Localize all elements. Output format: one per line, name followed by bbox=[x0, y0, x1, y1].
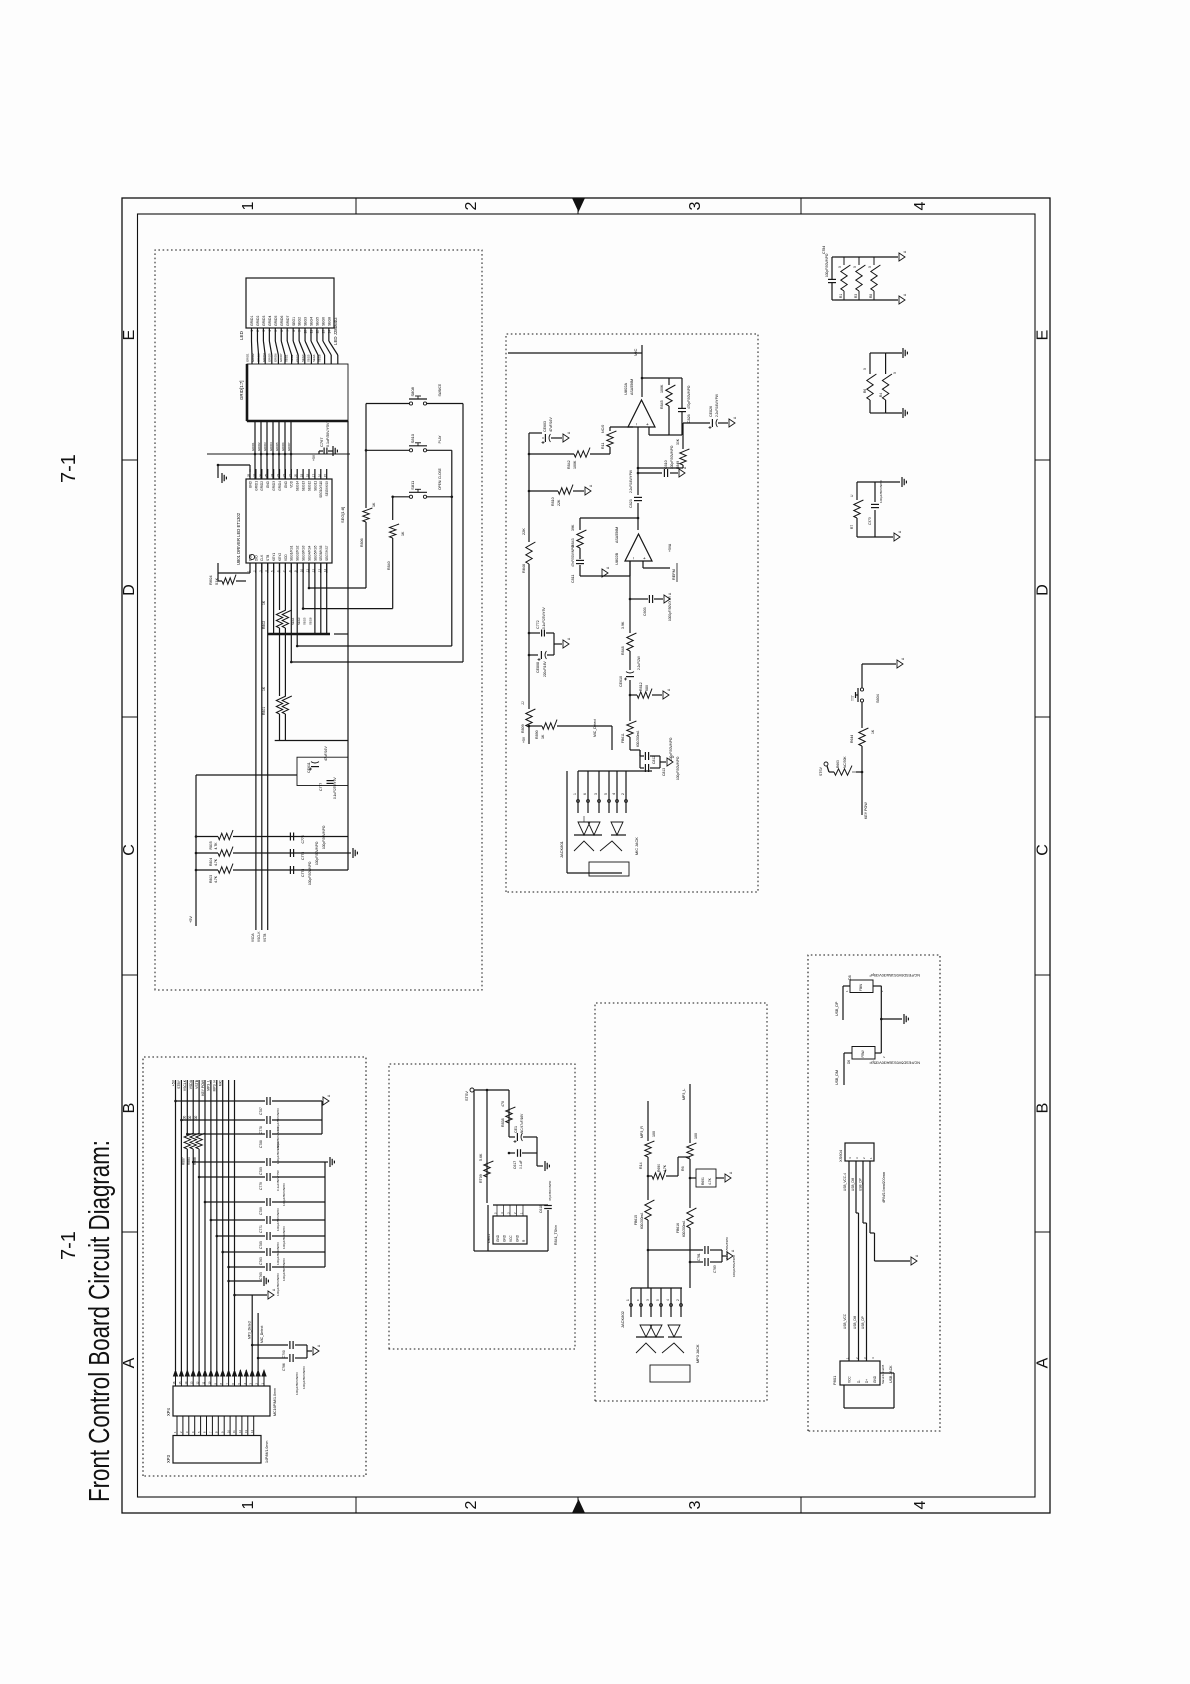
svg-text:0: 0 bbox=[868, 266, 872, 268]
svg-text:JACK802: JACK802 bbox=[620, 1310, 625, 1328]
svg-text:MP3_L: MP3_L bbox=[207, 1080, 211, 1091]
svg-text:MIC JACK: MIC JACK bbox=[635, 837, 639, 855]
svg-text:SEG6: SEG6 bbox=[312, 354, 316, 362]
svg-text:470pF/50V/NPO: 470pF/50V/NPO bbox=[687, 385, 691, 409]
svg-text:100pF/50V/NPO: 100pF/50V/NPO bbox=[670, 445, 674, 469]
svg-text:CE611: CE611 bbox=[307, 762, 311, 773]
svg-text:0.1uF/50V/Y5V: 0.1uF/50V/Y5V bbox=[276, 1169, 280, 1191]
svg-text:USB_VCC: USB_VCC bbox=[843, 1313, 847, 1329]
svg-text:A: A bbox=[121, 1357, 138, 1368]
svg-text:1K: 1K bbox=[262, 686, 266, 691]
svg-text:GND: GND bbox=[266, 480, 270, 488]
svg-text:1K: 1K bbox=[871, 729, 875, 734]
svg-text:SEG13: SEG13 bbox=[302, 481, 306, 492]
svg-text:R841_TShin: R841_TShin bbox=[554, 1225, 558, 1245]
svg-text:VSTB: VSTB bbox=[195, 1079, 199, 1089]
svg-text:USB_DP: USB_DP bbox=[859, 1178, 863, 1191]
svg-text:GND: GND bbox=[284, 480, 288, 488]
svg-text:Stand A Shell B: Stand A Shell B bbox=[881, 1365, 885, 1384]
svg-text:XP4: XP4 bbox=[166, 1407, 171, 1416]
svg-text:0: 0 bbox=[863, 368, 867, 370]
svg-text:17: 17 bbox=[311, 473, 315, 477]
svg-text:100pF/50V/NPO: 100pF/50V/NPO bbox=[276, 1141, 280, 1164]
svg-text:100pF/50V/NPO: 100pF/50V/NPO bbox=[282, 1258, 286, 1281]
svg-text:SEG4: SEG4 bbox=[310, 317, 314, 326]
svg-text:SEG4/KS4: SEG4/KS4 bbox=[307, 545, 311, 561]
svg-text:GRID4: GRID4 bbox=[262, 353, 266, 362]
svg-text:PLAY: PLAY bbox=[438, 435, 442, 444]
svg-text:GND: GND bbox=[873, 1375, 877, 1383]
svg-text:C813: C813 bbox=[662, 768, 666, 776]
svg-text:11: 11 bbox=[310, 330, 314, 334]
svg-text:22K: 22K bbox=[522, 528, 526, 535]
svg-text:GRID4: GRID4 bbox=[269, 442, 273, 451]
svg-text:C789: C789 bbox=[259, 1207, 263, 1215]
svg-text:GND: GND bbox=[503, 1234, 507, 1242]
svg-text:1000pF/50V/XTR: 1000pF/50V/XTR bbox=[668, 596, 672, 621]
svg-text:S811: S811 bbox=[410, 480, 415, 490]
svg-text:39K: 39K bbox=[571, 524, 575, 531]
svg-text:47nF/50V/NPO: 47nF/50V/NPO bbox=[571, 545, 575, 567]
svg-text:R691: R691 bbox=[701, 1177, 705, 1185]
svg-text:16: 16 bbox=[317, 473, 321, 477]
svg-text:R803: R803 bbox=[209, 875, 213, 883]
svg-text:C763: C763 bbox=[259, 1257, 263, 1265]
svg-text:+: + bbox=[645, 423, 650, 426]
svg-text:XP3: XP3 bbox=[166, 1454, 171, 1463]
svg-text:R809: R809 bbox=[521, 724, 525, 733]
svg-text:GRID1: GRID1 bbox=[250, 316, 254, 326]
svg-text:S604: S604 bbox=[876, 694, 880, 703]
svg-text:C790: C790 bbox=[282, 1350, 286, 1358]
svg-text:OSC: OSC bbox=[248, 553, 252, 561]
svg-text:MIC_Detect: MIC_Detect bbox=[593, 719, 597, 737]
svg-text:1: 1 bbox=[573, 793, 577, 795]
svg-text:GRID6: GRID6 bbox=[281, 442, 285, 451]
svg-text:CE1: CE1 bbox=[514, 1126, 518, 1133]
svg-text:USB JACK: USB JACK bbox=[889, 1365, 893, 1383]
svg-text:KEY POW: KEY POW bbox=[864, 802, 868, 819]
svg-text:R848: R848 bbox=[621, 646, 625, 655]
svg-text:4.7K: 4.7K bbox=[214, 875, 218, 883]
svg-text:SEG5/KS5: SEG5/KS5 bbox=[313, 545, 317, 561]
svg-text:R840: R840 bbox=[387, 561, 391, 570]
svg-text:CE826: CE826 bbox=[709, 406, 713, 417]
svg-text:R1: R1 bbox=[839, 294, 843, 298]
svg-text:C787: C787 bbox=[259, 1107, 263, 1115]
svg-text:26: 26 bbox=[258, 473, 262, 477]
svg-text:VSTB: VSTB bbox=[263, 934, 267, 942]
svg-text:SEG6: SEG6 bbox=[322, 317, 326, 326]
svg-text:SEG8: SEG8 bbox=[327, 317, 331, 326]
svg-text:OPEN/ CLOSE: OPEN/ CLOSE bbox=[438, 468, 442, 490]
svg-text:C610: C610 bbox=[664, 460, 668, 469]
svg-text:CE603: CE603 bbox=[543, 421, 547, 432]
svg-text:6: 6 bbox=[280, 330, 284, 332]
svg-text:100pF/50V/NPO: 100pF/50V/NPO bbox=[276, 1273, 280, 1296]
svg-text:7-1: 7-1 bbox=[58, 454, 80, 483]
svg-text:+5V: +5V bbox=[189, 916, 193, 923]
svg-text:100pF/50V/NPO: 100pF/50V/NPO bbox=[282, 1226, 286, 1249]
svg-text:+5V: +5V bbox=[171, 1079, 175, 1086]
svg-text:100K: 100K bbox=[660, 384, 664, 393]
svg-text:C767: C767 bbox=[319, 437, 324, 447]
svg-text:GRID1: GRID1 bbox=[254, 481, 258, 491]
svg-text:14: 14 bbox=[327, 330, 331, 334]
svg-text:STSV: STSV bbox=[819, 766, 823, 776]
svg-text:22K: 22K bbox=[557, 499, 561, 506]
svg-text:DIO: DIO bbox=[254, 555, 258, 561]
svg-text:CLK: CLK bbox=[260, 554, 264, 561]
svg-text:GRID6: GRID6 bbox=[280, 316, 284, 326]
svg-text:CE610: CE610 bbox=[619, 676, 623, 687]
svg-text:680: 680 bbox=[645, 685, 649, 691]
svg-text:FB616: FB616 bbox=[676, 1223, 680, 1233]
svg-text:47uF/16V: 47uF/16V bbox=[324, 746, 328, 761]
svg-text:220uF/16V: 220uF/16V bbox=[543, 661, 547, 677]
svg-text:C826: C826 bbox=[687, 414, 691, 423]
svg-text:USB_DM: USB_DM bbox=[853, 1315, 857, 1329]
svg-text:6: 6 bbox=[583, 793, 587, 795]
svg-text:3: 3 bbox=[646, 1299, 650, 1301]
svg-text:R4: R4 bbox=[879, 393, 883, 397]
svg-text:GRID7: GRID7 bbox=[287, 442, 291, 451]
svg-text:8: 8 bbox=[292, 330, 296, 332]
svg-text:0: 0 bbox=[893, 372, 897, 374]
svg-text:LED: LED bbox=[239, 330, 244, 340]
svg-text:R6: R6 bbox=[863, 389, 867, 393]
svg-text:C812: C812 bbox=[652, 756, 656, 764]
svg-text:R805: R805 bbox=[209, 841, 213, 849]
svg-text:R663: R663 bbox=[836, 760, 840, 768]
svg-text:R843: R843 bbox=[571, 538, 575, 547]
svg-text:R3: R3 bbox=[854, 294, 858, 298]
svg-text:C603: C603 bbox=[643, 607, 647, 616]
svg-text:A: A bbox=[1035, 1357, 1052, 1368]
svg-text:100pF/50V/NPO: 100pF/50V/NPO bbox=[676, 756, 680, 780]
svg-text:5.6K: 5.6K bbox=[479, 1153, 483, 1161]
svg-text:SEG1/KS1: SEG1/KS1 bbox=[290, 545, 294, 561]
svg-text:C783: C783 bbox=[713, 1265, 717, 1273]
svg-text:3: 3 bbox=[594, 793, 598, 795]
svg-text:STSV: STSV bbox=[465, 1091, 469, 1101]
svg-text:NC/FESD5V0S1BA/30V/35pF: NC/FESD5V0S1BA/30V/35pF bbox=[869, 973, 920, 977]
svg-text:−: − bbox=[634, 423, 639, 426]
svg-text:E: E bbox=[121, 330, 138, 341]
svg-text:GRID[1:7]: GRID[1:7] bbox=[239, 380, 244, 400]
svg-text:ASA556M: ASA556M bbox=[615, 527, 619, 543]
svg-text:1: 1 bbox=[250, 330, 254, 332]
svg-text:R806: R806 bbox=[360, 538, 364, 547]
svg-text:E: E bbox=[1035, 330, 1052, 341]
svg-text:100: 100 bbox=[694, 1133, 698, 1139]
svg-text:1: 1 bbox=[240, 201, 257, 210]
svg-text:600/200mA: 600/200mA bbox=[636, 730, 640, 747]
svg-text:+5VA: +5VA bbox=[668, 543, 672, 552]
svg-text:2.2uF/16V/YPW: 2.2uF/16V/YPW bbox=[715, 394, 719, 417]
svg-text:JJ: JJ bbox=[521, 701, 525, 705]
svg-text:19: 19 bbox=[300, 473, 304, 477]
svg-text:100: 100 bbox=[652, 1131, 656, 1137]
svg-text:S810: S810 bbox=[410, 433, 415, 443]
svg-text:GRID4: GRID4 bbox=[278, 481, 282, 491]
svg-text:18: 18 bbox=[306, 473, 310, 477]
svg-text:1K: 1K bbox=[262, 600, 266, 605]
svg-text:30K: 30K bbox=[676, 438, 680, 445]
svg-text:R890: R890 bbox=[535, 730, 539, 739]
svg-text:1: 1 bbox=[626, 1299, 630, 1301]
svg-text:600/200mA: 600/200mA bbox=[640, 1212, 644, 1229]
svg-text:13: 13 bbox=[322, 330, 326, 334]
svg-text:C617: C617 bbox=[513, 1161, 517, 1169]
svg-text:SEG1: SEG1 bbox=[291, 617, 295, 625]
svg-text:R690: R690 bbox=[657, 1164, 661, 1172]
svg-text:20: 20 bbox=[294, 473, 298, 477]
svg-text:GRID5: GRID5 bbox=[275, 442, 279, 451]
svg-text:4.7K: 4.7K bbox=[214, 858, 218, 866]
svg-text:100pF/50V/NPO: 100pF/50V/NPO bbox=[825, 253, 829, 277]
svg-text:CE808: CE808 bbox=[536, 662, 540, 673]
svg-text:2.2uF/16V/YPW: 2.2uF/16V/YPW bbox=[629, 470, 633, 493]
svg-text:GRID7: GRID7 bbox=[279, 353, 283, 362]
svg-text:GRID2: GRID2 bbox=[251, 353, 255, 362]
svg-text:1K: 1K bbox=[541, 734, 545, 739]
svg-text:GND: GND bbox=[248, 480, 252, 488]
svg-text:R846: R846 bbox=[522, 564, 526, 573]
svg-text:2: 2 bbox=[676, 1299, 680, 1301]
svg-text:REFM: REFM bbox=[672, 569, 676, 580]
svg-text:C781: C781 bbox=[697, 1253, 701, 1261]
svg-text:USB_DM: USB_DM bbox=[835, 1070, 839, 1085]
svg-text:C779: C779 bbox=[259, 1182, 263, 1190]
svg-text:C778: C778 bbox=[259, 1126, 263, 1134]
svg-text:FBW: FBW bbox=[861, 1050, 865, 1057]
svg-text:D8: D8 bbox=[848, 975, 852, 980]
svg-text:R884: R884 bbox=[187, 1157, 191, 1165]
svg-text:4: 4 bbox=[612, 793, 616, 795]
svg-text:TTT: TTT bbox=[851, 695, 855, 701]
svg-text:XS604: XS604 bbox=[838, 1149, 843, 1162]
svg-text:ASA556M: ASA556M bbox=[630, 379, 634, 395]
svg-text:5: 5 bbox=[656, 1299, 660, 1301]
svg-text:SEG6/KS6: SEG6/KS6 bbox=[319, 545, 323, 561]
svg-text:2: 2 bbox=[621, 793, 625, 795]
svg-text:C784: C784 bbox=[822, 246, 826, 254]
svg-text:R644: R644 bbox=[850, 735, 854, 743]
svg-text:SEG5: SEG5 bbox=[307, 354, 311, 362]
svg-text:SEG11: SEG11 bbox=[313, 481, 317, 491]
svg-text:R801: R801 bbox=[262, 707, 266, 715]
svg-text:GRID2: GRID2 bbox=[257, 442, 261, 451]
svg-text:R845: R845 bbox=[660, 400, 664, 409]
svg-text:R7: R7 bbox=[850, 525, 854, 529]
svg-text:7-1: 7-1 bbox=[58, 1231, 80, 1260]
svg-text:B: B bbox=[1035, 1103, 1052, 1114]
svg-text:P801: P801 bbox=[832, 1375, 837, 1385]
svg-text:14P/M/1.0mm: 14P/M/1.0mm bbox=[265, 1441, 269, 1463]
svg-text:600/200mA: 600/200mA bbox=[682, 1220, 686, 1237]
svg-text:0.1uF/25V/Y5V: 0.1uF/25V/Y5V bbox=[333, 777, 337, 799]
svg-text:R604: R604 bbox=[208, 575, 213, 585]
svg-text:VSCLK: VSCLK bbox=[257, 931, 261, 942]
svg-text:USB_VCC-4: USB_VCC-4 bbox=[843, 1173, 847, 1191]
svg-text:R812: R812 bbox=[639, 682, 643, 691]
svg-text:LED J28064G: LED J28064G bbox=[333, 317, 338, 345]
svg-text:R6: R6 bbox=[681, 1166, 685, 1171]
svg-text:SEG2: SEG2 bbox=[298, 317, 302, 326]
svg-text:SEG3: SEG3 bbox=[304, 317, 308, 326]
svg-text:C772: C772 bbox=[536, 620, 540, 629]
svg-text:1K: 1K bbox=[372, 502, 376, 507]
svg-text:STB: STB bbox=[266, 555, 270, 561]
svg-text:GRID2: GRID2 bbox=[256, 316, 260, 326]
svg-text:Front Control Board Circuit Di: Front Control Board Circuit Diagram: bbox=[84, 1140, 116, 1502]
svg-text:FB611: FB611 bbox=[621, 733, 625, 743]
svg-text:C771: C771 bbox=[259, 1225, 263, 1233]
svg-text:MIC_Detect: MIC_Detect bbox=[260, 1326, 264, 1343]
svg-text:GRID5: GRID5 bbox=[274, 316, 278, 326]
svg-text:4: 4 bbox=[666, 1299, 670, 1301]
svg-text:C785: C785 bbox=[259, 1241, 263, 1249]
svg-text:S808: S808 bbox=[410, 386, 415, 396]
svg-text:2: 2 bbox=[463, 1500, 480, 1509]
svg-text:R887: R887 bbox=[181, 1157, 185, 1165]
svg-text:C373: C373 bbox=[868, 517, 872, 525]
svg-text:GRID1: GRID1 bbox=[251, 442, 255, 451]
svg-text:R14: R14 bbox=[639, 1162, 643, 1169]
svg-text:GND: GND bbox=[496, 1234, 500, 1242]
svg-text:GRID6: GRID6 bbox=[273, 353, 277, 362]
svg-text:SEG3: SEG3 bbox=[295, 354, 299, 362]
svg-text:NC/0: NC/0 bbox=[601, 425, 605, 433]
svg-text:SEG2: SEG2 bbox=[290, 354, 294, 362]
svg-text:MC16P/M/1.0mm: MC16P/M/1.0mm bbox=[273, 1388, 277, 1416]
svg-text:9: 9 bbox=[298, 330, 302, 332]
svg-text:GRID4: GRID4 bbox=[268, 316, 272, 326]
svg-text:SEG3: SEG3 bbox=[297, 617, 301, 625]
svg-text:100pF/50V/NPO: 100pF/50V/NPO bbox=[276, 1242, 280, 1265]
svg-text:100pF/50V/NPO: 100pF/50V/NPO bbox=[308, 861, 312, 885]
svg-text:100pF/50V/NPO: 100pF/50V/NPO bbox=[315, 841, 319, 865]
svg-text:C: C bbox=[1035, 844, 1052, 856]
svg-text:3: 3 bbox=[687, 201, 704, 210]
svg-text:KEY POW: KEY POW bbox=[201, 1079, 205, 1096]
svg-text:SEG8: SEG8 bbox=[318, 354, 322, 362]
svg-text:R849: R849 bbox=[676, 461, 680, 469]
svg-text:+: + bbox=[642, 557, 647, 560]
svg-text:GRID2: GRID2 bbox=[260, 481, 264, 491]
svg-text:GRID3: GRID3 bbox=[257, 353, 261, 362]
svg-text:GRID7: GRID7 bbox=[286, 316, 290, 326]
svg-text:47pF/50V/NPO: 47pF/50V/NPO bbox=[548, 1180, 552, 1201]
svg-text:VSCLK: VSCLK bbox=[183, 1079, 187, 1091]
svg-text:0.1uF/50V/Y5V: 0.1uF/50V/Y5V bbox=[326, 422, 330, 447]
svg-text:USB_DP: USB_DP bbox=[861, 1316, 865, 1329]
svg-text:15: 15 bbox=[323, 473, 327, 477]
svg-text:SEG10/S10: SEG10/S10 bbox=[319, 481, 323, 498]
svg-text:MP3 JACK: MP3 JACK bbox=[696, 1344, 700, 1363]
svg-text:USB_DP: USB_DP bbox=[835, 1001, 839, 1016]
svg-text:4.7K: 4.7K bbox=[214, 842, 218, 850]
svg-text:100K: 100K bbox=[573, 460, 577, 469]
svg-text:4: 4 bbox=[912, 201, 929, 210]
svg-text:U802B: U802B bbox=[614, 552, 619, 565]
svg-text:100pF/50V/NPO: 100pF/50V/NPO bbox=[732, 1254, 736, 1277]
svg-text:4.7K: 4.7K bbox=[663, 1164, 667, 1172]
svg-text:VDD: VDD bbox=[290, 480, 294, 487]
svg-text:C811: C811 bbox=[571, 575, 575, 583]
svg-text:100pF/50V/NPO: 100pF/50V/NPO bbox=[302, 1366, 306, 1389]
svg-text:SEG3/KS3: SEG3/KS3 bbox=[302, 545, 306, 561]
svg-text:D: D bbox=[1035, 584, 1052, 596]
svg-text:R838: R838 bbox=[501, 1118, 505, 1127]
svg-text:R804: R804 bbox=[209, 858, 213, 866]
svg-text:100pF/50V/NPO: 100pF/50V/NPO bbox=[879, 480, 883, 503]
svg-text:R802: R802 bbox=[262, 621, 266, 629]
svg-text:B: B bbox=[121, 1103, 138, 1114]
svg-text:3: 3 bbox=[262, 330, 266, 332]
svg-text:D6: D6 bbox=[847, 1060, 851, 1064]
svg-text:FBW: FBW bbox=[859, 984, 863, 991]
svg-text:MP3_H: MP3_H bbox=[213, 1079, 217, 1091]
svg-text:0.1uF/25V/Y5V: 0.1uF/25V/Y5V bbox=[542, 607, 546, 629]
svg-text:NC/47uF/16V: NC/47uF/16V bbox=[520, 1113, 524, 1133]
svg-text:C788: C788 bbox=[259, 1140, 263, 1148]
svg-text:GRID5: GRID5 bbox=[268, 353, 272, 362]
svg-text:1: 1 bbox=[240, 1500, 257, 1509]
svg-text:4PIN/2.0mm/200mm: 4PIN/2.0mm/200mm bbox=[882, 1172, 886, 1203]
svg-text:0.1uF: 0.1uF bbox=[519, 1160, 523, 1169]
svg-text:25: 25 bbox=[264, 473, 268, 477]
svg-text:28: 28 bbox=[247, 473, 251, 477]
svg-text:VCC: VCC bbox=[848, 1376, 852, 1383]
svg-text:SEG8: SEG8 bbox=[308, 617, 312, 625]
svg-text:VSDA: VSDA bbox=[251, 932, 255, 942]
svg-text:VCC: VCC bbox=[509, 1235, 513, 1242]
svg-text:STBY: STBY bbox=[177, 1079, 181, 1089]
svg-text:VSDA: VSDA bbox=[189, 1079, 193, 1089]
svg-text:C786: C786 bbox=[282, 1363, 286, 1371]
svg-text:GND: GND bbox=[516, 1234, 520, 1242]
svg-text:VDD: VDD bbox=[284, 554, 288, 561]
svg-text:GRID3: GRID3 bbox=[262, 316, 266, 326]
svg-text:0: 0 bbox=[853, 266, 857, 268]
svg-text:SEG4: SEG4 bbox=[301, 354, 305, 362]
svg-text:100pF/50V/NPO: 100pF/50V/NPO bbox=[322, 825, 326, 849]
svg-text:U802A: U802A bbox=[623, 382, 628, 395]
svg-text:SEG5: SEG5 bbox=[303, 617, 307, 625]
svg-text:5: 5 bbox=[604, 793, 608, 795]
svg-text:MIC: MIC bbox=[219, 1079, 223, 1086]
svg-text:47uF/16V: 47uF/16V bbox=[549, 417, 553, 432]
svg-text:D+: D+ bbox=[865, 1379, 869, 1383]
svg-text:4: 4 bbox=[268, 330, 272, 332]
svg-text:MP3_R: MP3_R bbox=[640, 1126, 644, 1138]
svg-text:3.9K: 3.9K bbox=[621, 621, 625, 629]
svg-text:NC/30K: NC/30K bbox=[843, 756, 847, 768]
svg-text:+5V: +5V bbox=[522, 736, 526, 743]
svg-text:MP3_Detect: MP3_Detect bbox=[248, 1321, 252, 1339]
svg-text:SEG5: SEG5 bbox=[316, 317, 320, 326]
svg-text:SEG14: SEG14 bbox=[296, 481, 300, 492]
svg-text:RT09: RT09 bbox=[479, 1174, 483, 1183]
svg-text:NC/FESD5V0S1BA/30V/35pF: NC/FESD5V0S1BA/30V/35pF bbox=[869, 1061, 920, 1065]
svg-text:3: 3 bbox=[687, 1500, 704, 1509]
svg-text:2.2uF/2W: 2.2uF/2W bbox=[637, 656, 641, 670]
svg-text:SEG7/KS7: SEG7/KS7 bbox=[325, 545, 329, 561]
svg-text:100pF/50V/NPO: 100pF/50V/NPO bbox=[276, 1208, 280, 1231]
svg-text:SWB/CE: SWB/CE bbox=[438, 384, 442, 397]
